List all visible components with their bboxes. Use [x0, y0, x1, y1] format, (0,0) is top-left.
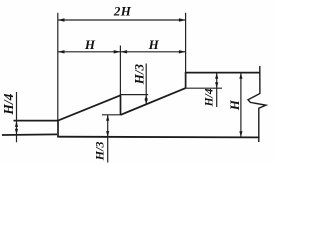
svg-text:H: H	[148, 37, 160, 52]
svg-text:2H: 2H	[113, 4, 132, 19]
dimension line 2H	[58, 19, 186, 21]
dimension H/3 bottom	[107, 115, 109, 163]
extension line peak level	[121, 94, 149, 96]
extension line right H/4 level	[186, 87, 222, 89]
svg-text:H/4: H/4	[203, 88, 215, 107]
dimension line H H	[58, 51, 186, 53]
svg-text:H/3: H/3	[132, 63, 147, 85]
dimension H/4 left	[16, 92, 18, 142]
left plate top edge	[14, 120, 59, 122]
svg-text:H: H	[84, 37, 96, 52]
lower scarf slope	[121, 88, 186, 115]
top edge right beam	[185, 72, 260, 74]
left plate bottom edge	[2, 133, 57, 136]
dimension H/3 upper	[145, 64, 147, 105]
joint left end face	[57, 120, 59, 137]
upper scarf slope	[58, 95, 121, 120]
dimension H/4 right	[216, 73, 218, 107]
bottom edge main	[57, 136, 259, 139]
break line	[248, 66, 266, 142]
svg-text:H/4: H/4	[1, 93, 16, 115]
dimension H right	[240, 73, 242, 138]
step tooth face	[120, 94, 122, 115]
joint right end face	[185, 72, 187, 88]
extension line left (x=55)	[57, 13, 59, 121]
svg-text:H: H	[227, 99, 242, 111]
extension line step bottom	[102, 114, 121, 116]
extension line middle (x=120)	[119, 46, 121, 96]
svg-text:H/3: H/3	[93, 142, 107, 162]
extension line right (x=185)	[185, 13, 187, 73]
